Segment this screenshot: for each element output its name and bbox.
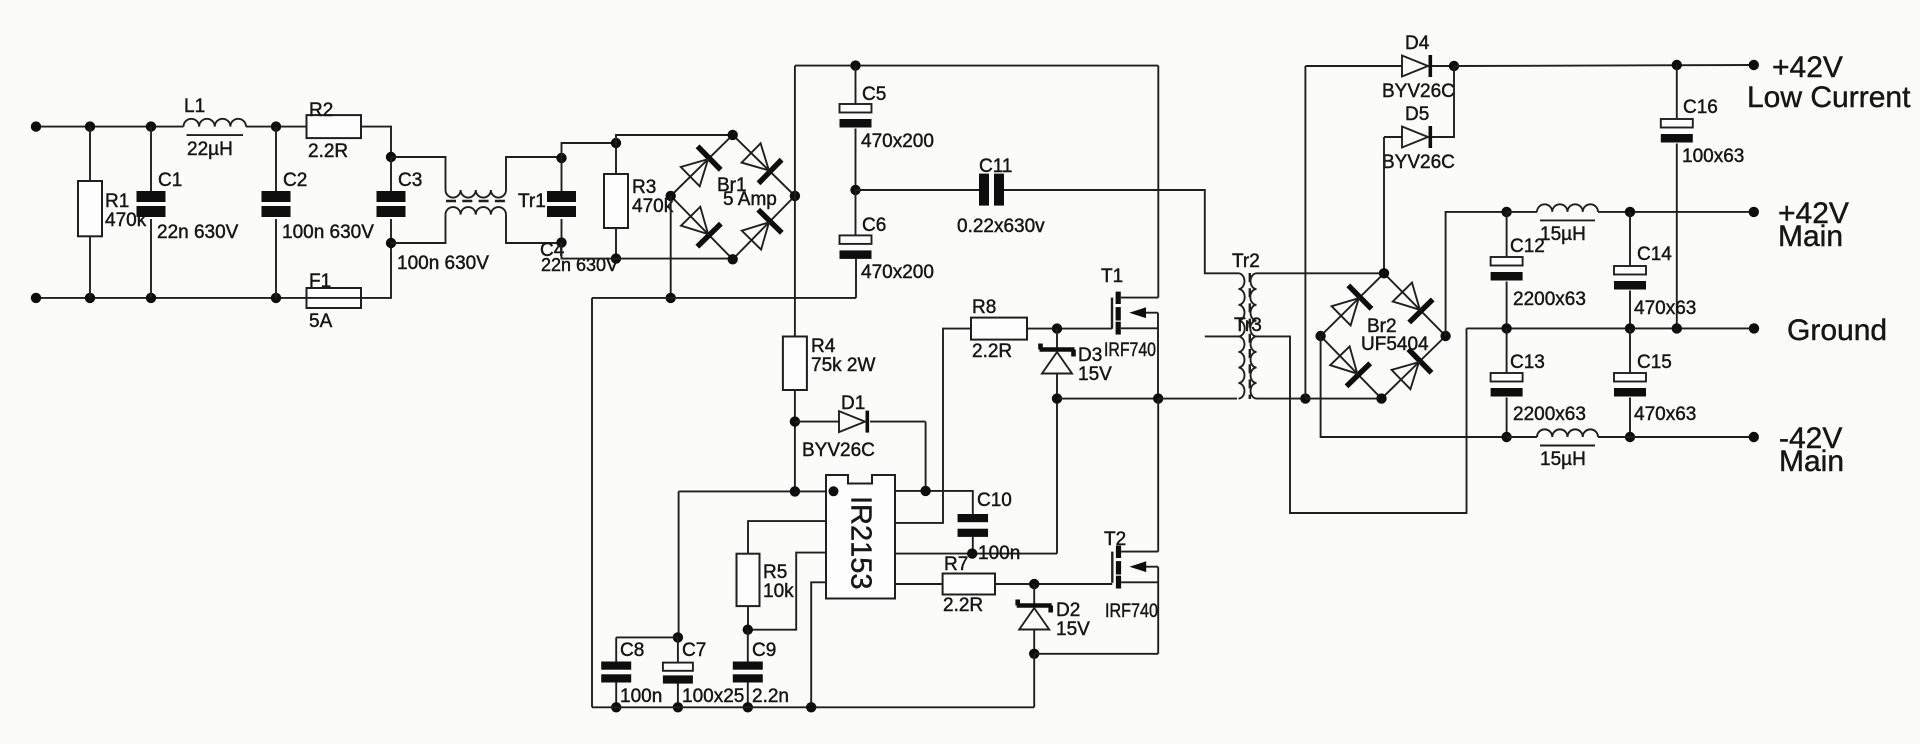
junction pin4 ground bbox=[806, 702, 816, 712]
wire C3 top to Tr1 top winding bbox=[391, 157, 446, 190]
capacitor C6 bbox=[840, 235, 872, 259]
wire minus rail down to control ground bbox=[591, 298, 593, 707]
wire C13 bottom lead bbox=[1506, 398, 1508, 438]
svg-text:F1: F1 bbox=[309, 271, 331, 292]
svg-text:100x25: 100x25 bbox=[682, 686, 744, 707]
wire C6 bottom stub bbox=[855, 258, 858, 260]
svg-text:100n: 100n bbox=[620, 686, 662, 707]
wire pin3 to R5 bottom C9 bbox=[748, 553, 826, 630]
node Br1 AC top bbox=[728, 130, 738, 140]
terminal +42V low current bbox=[1749, 60, 1759, 70]
svg-text:15µH: 15µH bbox=[1540, 224, 1586, 245]
svg-text:0.22x630v: 0.22x630v bbox=[957, 216, 1045, 237]
capacitor C7 bbox=[663, 663, 693, 684]
junction C16 bottom bbox=[1672, 323, 1682, 333]
capacitor C10 bbox=[958, 514, 989, 537]
capacitor C15 bbox=[1614, 373, 1646, 397]
terminal input bottom bbox=[31, 293, 41, 303]
junction D4 D5 cathodes bbox=[1449, 61, 1459, 71]
wire T1 drain lead bbox=[1121, 297, 1159, 299]
wire C2 top lead bbox=[275, 127, 277, 191]
junction C5 top bbox=[850, 60, 860, 70]
wire C7 bottom lead bbox=[677, 683, 679, 707]
capacitor C4 bbox=[547, 191, 576, 217]
wire secondary bottom to Br2 AC bbox=[1305, 398, 1381, 400]
wire pin6 Vs bbox=[895, 553, 1057, 555]
wire bottom input rail bbox=[36, 297, 307, 299]
wire R3 bottom lead bbox=[615, 228, 617, 259]
svg-text:D3: D3 bbox=[1078, 345, 1102, 366]
svg-text:C6: C6 bbox=[862, 215, 886, 236]
wire C10 bottom lead bbox=[972, 537, 974, 554]
junction C15 bottom bbox=[1625, 432, 1635, 442]
svg-text:2.2R: 2.2R bbox=[972, 341, 1012, 362]
wire D4 cathode lead bbox=[1432, 65, 1454, 67]
junction C14 C15 bbox=[1625, 323, 1635, 333]
IC U1 pin1 mark bbox=[829, 486, 839, 496]
junction C4 top bbox=[556, 153, 566, 163]
transformer Tr2 Tr3 core bbox=[1249, 273, 1251, 399]
svg-text:Tr1: Tr1 bbox=[518, 191, 546, 212]
svg-text:2200x63: 2200x63 bbox=[1513, 404, 1586, 425]
svg-text:2.2R: 2.2R bbox=[308, 141, 348, 162]
terminal input top bbox=[31, 121, 41, 131]
svg-text:C10: C10 bbox=[977, 490, 1012, 511]
junction R3 top bbox=[611, 138, 621, 148]
svg-text:75k 2W: 75k 2W bbox=[811, 355, 875, 376]
wire C9 bottom lead bbox=[747, 683, 749, 708]
capacitor C8 bbox=[601, 662, 631, 683]
wire C7 top lead bbox=[677, 637, 679, 662]
junction D1 anode bbox=[790, 416, 800, 426]
capacitor C12 bbox=[1491, 257, 1523, 281]
svg-text:UF5404: UF5404 bbox=[1361, 334, 1429, 355]
node Br2 AC top bbox=[1379, 268, 1389, 278]
wire Br1 minus down to minus rail bbox=[670, 196, 672, 298]
junction D2 bottom bbox=[1029, 649, 1039, 659]
zener diode D3 bbox=[1040, 344, 1075, 374]
node Br1 AC bottom bbox=[728, 254, 738, 264]
junction half-bridge midpoint bbox=[1153, 393, 1163, 403]
wire C14 top lead bbox=[1629, 212, 1631, 266]
svg-text:C9: C9 bbox=[752, 640, 776, 661]
wire C15 top lead bbox=[1629, 328, 1631, 373]
svg-text:10k: 10k bbox=[763, 581, 794, 602]
svg-text:Tr3: Tr3 bbox=[1234, 315, 1262, 336]
svg-text:Low Current: Low Current bbox=[1747, 81, 1911, 114]
junction C7 ground bbox=[673, 702, 683, 712]
wire top input rail left bbox=[36, 126, 184, 128]
wire C8 top lead bbox=[615, 637, 617, 661]
wire R1 top lead bbox=[89, 127, 91, 181]
inductor L3 15uH bbox=[1537, 429, 1598, 445]
wire R5 bottom lead bbox=[747, 606, 749, 630]
wire pin8 Vb to C10 bbox=[895, 491, 973, 514]
svg-text:BYV26C: BYV26C bbox=[1382, 81, 1455, 102]
wire Tr primary tap stub bbox=[1205, 335, 1239, 337]
svg-text:22µH: 22µH bbox=[187, 139, 233, 160]
svg-text:100n 630V: 100n 630V bbox=[397, 253, 489, 274]
wire D5 anode lead bbox=[1384, 136, 1402, 138]
junction C2 top bbox=[271, 121, 281, 131]
wire midpoint rail bbox=[1057, 398, 1158, 400]
svg-text:D1: D1 bbox=[841, 393, 865, 414]
wire midpoint to C11 bbox=[856, 189, 980, 191]
wire C4 bottom lead bbox=[561, 219, 563, 243]
svg-text:2200x63: 2200x63 bbox=[1513, 289, 1586, 310]
svg-text:2.2n: 2.2n bbox=[752, 686, 789, 707]
wire HV rail down to T1 drain bbox=[1157, 66, 1159, 298]
capacitor C3 bbox=[377, 191, 406, 217]
transformer Tr2 primary winding bbox=[1239, 273, 1245, 336]
junction R1 top bbox=[85, 121, 95, 131]
wire C5 to C6 junction bbox=[855, 129, 857, 191]
wire T1 source lead bbox=[1121, 327, 1158, 329]
node Br2 DC plus bbox=[1440, 331, 1450, 341]
wire R7 to T2 gate bbox=[995, 583, 1112, 585]
wire pin1 Vcc bbox=[679, 490, 826, 492]
wire C3 bottom to Tr1 bottom winding bbox=[391, 215, 446, 243]
transformer Tr3 primary winding bbox=[1239, 336, 1245, 398]
junction C1 top bbox=[146, 121, 156, 131]
junction D3 top bbox=[1052, 323, 1062, 333]
IC U1 IR2153 bbox=[826, 475, 895, 599]
resistor R8 bbox=[971, 318, 1027, 340]
resistor R2 bbox=[307, 115, 362, 138]
svg-text:C3: C3 bbox=[398, 170, 422, 191]
junction C2 bottom bbox=[271, 293, 281, 303]
inductor L1 bbox=[184, 119, 247, 135]
wire C16 down to ground rail bbox=[1676, 144, 1678, 329]
diode D5 bbox=[1402, 126, 1432, 148]
svg-text:Ground: Ground bbox=[1787, 314, 1887, 347]
svg-text:R3: R3 bbox=[632, 177, 656, 198]
wire R3 top to Br1 AC top bbox=[616, 135, 733, 143]
svg-text:470x63: 470x63 bbox=[1634, 404, 1696, 425]
wire -42V rail to L3 bbox=[1507, 436, 1537, 438]
capacitor C9 bbox=[733, 662, 763, 683]
wire C1 bottom lead bbox=[150, 219, 152, 298]
wire C1 top lead bbox=[150, 127, 152, 191]
wire Br2 minus down to -42V rail bbox=[1321, 336, 1507, 437]
junction C12 C13 bbox=[1501, 323, 1511, 333]
node Br1 DC minus bbox=[666, 191, 676, 201]
wire C8 bottom lead bbox=[615, 683, 617, 708]
transformer Tr1 bottom winding bbox=[446, 207, 507, 215]
svg-text:R4: R4 bbox=[811, 336, 836, 357]
svg-text:470x63: 470x63 bbox=[1634, 298, 1696, 319]
wire Br2 plus up to +42V rail bbox=[1446, 212, 1507, 336]
wire primary minus rail bbox=[592, 297, 856, 299]
wire C2 bottom lead bbox=[275, 219, 277, 298]
transistor T1 IRF740 bbox=[1112, 292, 1121, 335]
capacitor C1 bbox=[137, 191, 166, 217]
wire top rail L1 to R2 bbox=[246, 126, 307, 128]
svg-text:T2: T2 bbox=[1104, 529, 1126, 550]
wire T1 substrate arrow lead bbox=[1135, 312, 1158, 314]
wire Tr3 secondary bottom bbox=[1257, 398, 1306, 400]
junction D2 top bbox=[1029, 579, 1039, 589]
svg-text:15V: 15V bbox=[1056, 619, 1090, 640]
wire R2 to C3 top bbox=[361, 127, 391, 157]
wire C13 top lead bbox=[1506, 328, 1508, 373]
capacitor C2 bbox=[262, 191, 291, 217]
wire D1 cathode to Vb bbox=[870, 421, 926, 423]
junction C3 bottom bbox=[386, 238, 396, 248]
wire C11 to Tr2 primary top bbox=[1004, 190, 1239, 273]
wire C8 jog bbox=[616, 636, 678, 638]
wire D3 top lead bbox=[1056, 329, 1058, 349]
wire C14 bottom lead bbox=[1629, 291, 1631, 329]
wire Tr2 secondary top to Br2 bbox=[1257, 272, 1385, 274]
arrow T1 substrate bbox=[1129, 307, 1146, 318]
wire C12 bottom lead bbox=[1506, 282, 1508, 329]
wire C3 bottom lead bbox=[390, 219, 392, 243]
wire R1 bottom lead bbox=[89, 236, 91, 298]
wire +42V low current rail bbox=[1454, 65, 1754, 66]
svg-text:IR2153: IR2153 bbox=[845, 496, 877, 590]
svg-text:D5: D5 bbox=[1405, 104, 1429, 125]
wire D1 anode lead bbox=[795, 421, 839, 423]
svg-text:C16: C16 bbox=[1683, 97, 1718, 118]
wire ground rail bbox=[1467, 327, 1755, 329]
wire T2 drain lead bbox=[1121, 551, 1158, 553]
wire R3 bottom to Br1 AC bottom bbox=[616, 258, 733, 260]
svg-text:D2: D2 bbox=[1056, 600, 1080, 621]
svg-text:15µH: 15µH bbox=[1540, 449, 1586, 470]
capacitor C5 bbox=[840, 104, 872, 128]
capacitor C16 bbox=[1661, 119, 1693, 143]
capacitor C13 bbox=[1491, 373, 1523, 397]
node Br2 AC bottom bbox=[1376, 393, 1386, 403]
svg-text:22n 630V: 22n 630V bbox=[157, 222, 239, 243]
svg-text:+42V: +42V bbox=[1772, 51, 1843, 84]
wire minus rail up to C6 bottom bbox=[855, 259, 857, 298]
resistor R5 bbox=[737, 554, 760, 606]
junction C10 Vs bbox=[967, 548, 977, 558]
wire C16 top lead bbox=[1676, 65, 1678, 119]
svg-text:Main: Main bbox=[1779, 445, 1844, 478]
transformer Tr1 core bbox=[446, 200, 506, 203]
node Br1 DC plus bbox=[790, 191, 800, 201]
svg-text:100n: 100n bbox=[978, 543, 1020, 564]
junction D3 midpoint bbox=[1052, 393, 1062, 403]
svg-text:T1: T1 bbox=[1101, 266, 1123, 287]
zener diode D2 bbox=[1017, 600, 1052, 630]
wire R4 bottom to Vcc node bbox=[794, 390, 796, 491]
svg-text:Main: Main bbox=[1778, 220, 1843, 253]
wire T2 source down bbox=[1157, 567, 1159, 654]
terminal +42V main bbox=[1749, 207, 1759, 217]
svg-text:IRF740: IRF740 bbox=[1104, 340, 1156, 361]
wire T2 source to D2 bottom bbox=[1034, 653, 1158, 655]
svg-text:2.2R: 2.2R bbox=[943, 595, 983, 616]
wire C3 top lead bbox=[390, 157, 392, 191]
svg-text:5 Amp: 5 Amp bbox=[723, 189, 777, 210]
wire Vs up to midpoint bbox=[1056, 399, 1058, 554]
wire D2 top lead bbox=[1033, 584, 1035, 605]
svg-text:BYV26C: BYV26C bbox=[802, 440, 875, 461]
junction C12 top bbox=[1501, 207, 1511, 217]
wire T2 substrate arrow lead bbox=[1135, 566, 1158, 568]
transistor T2 IRF740 bbox=[1112, 546, 1121, 589]
svg-text:BYV26C: BYV26C bbox=[1382, 152, 1455, 173]
wire D2 bottom lead bbox=[1033, 630, 1035, 654]
svg-text:470x200: 470x200 bbox=[861, 131, 934, 152]
svg-text:C5: C5 bbox=[862, 84, 886, 105]
wire D2 bottom to ground rail bbox=[1033, 654, 1035, 708]
svg-text:5A: 5A bbox=[309, 311, 333, 332]
wire Br1 plus down to R4 bbox=[794, 196, 796, 337]
wire C4 top lead bbox=[561, 158, 563, 191]
transformer Tr1 top winding bbox=[446, 190, 507, 198]
junction C4 bottom bbox=[556, 237, 566, 247]
svg-text:C1: C1 bbox=[158, 170, 182, 191]
svg-text:100n 630V: 100n 630V bbox=[282, 222, 374, 243]
wire C4 bottom to R3 bottom bbox=[562, 243, 617, 259]
wire D5 cathode up to D4 bbox=[1432, 66, 1454, 137]
svg-text:C8: C8 bbox=[620, 640, 644, 661]
wire C12 top lead bbox=[1506, 212, 1508, 257]
wire -42V main rail right bbox=[1598, 436, 1754, 438]
wire D5 anode down to Br2 AC top bbox=[1383, 137, 1385, 273]
junction C1 bottom bbox=[146, 293, 156, 303]
svg-text:R5: R5 bbox=[763, 562, 787, 583]
node Br2 DC minus bbox=[1315, 331, 1325, 341]
wire Tr secondary tap to ground path bbox=[1257, 328, 1467, 513]
junction D1 cathode pin8 bbox=[920, 486, 930, 496]
fuse F1 bbox=[307, 288, 362, 308]
wire control ground rail bbox=[592, 706, 1034, 708]
resistor R4 bbox=[783, 337, 807, 391]
svg-text:470x200: 470x200 bbox=[861, 262, 934, 283]
wire C4 top to R3 top bbox=[562, 143, 617, 158]
wire HV plus rail bbox=[795, 65, 1158, 67]
wire Br1 plus up to HV rail bbox=[794, 66, 796, 196]
junction R1 bottom bbox=[85, 293, 95, 303]
junction C13 bottom bbox=[1501, 432, 1511, 442]
svg-text:C15: C15 bbox=[1637, 352, 1672, 373]
junction R3 bottom bbox=[611, 253, 621, 263]
junction C7 C8 bbox=[673, 632, 683, 642]
capacitor C11 bbox=[979, 174, 1004, 206]
transformer Tr2 secondary winding bbox=[1250, 273, 1256, 336]
wire C5 top lead bbox=[855, 66, 857, 104]
wire T2 source lead bbox=[1121, 581, 1158, 583]
arrow T2 substrate bbox=[1129, 561, 1146, 572]
wire D4 anode riser bbox=[1304, 66, 1306, 399]
svg-text:C14: C14 bbox=[1637, 244, 1672, 265]
wire Vcc down to C7 bbox=[678, 491, 680, 637]
svg-text:R7: R7 bbox=[944, 554, 968, 575]
wire T2 drain up to midpoint bbox=[1157, 399, 1159, 552]
wire Tr1 top winding to C4 top bbox=[506, 157, 562, 190]
junction C14 top bbox=[1625, 207, 1635, 217]
wire rail to L2 bbox=[1507, 211, 1537, 213]
wire D1 cathode down to pin8 wire bbox=[925, 422, 927, 491]
diode D1 bbox=[839, 411, 869, 433]
diode D4 bbox=[1402, 55, 1432, 77]
bridge rectifier Br1 bbox=[671, 135, 795, 259]
wire D4 anode lead bbox=[1305, 65, 1402, 67]
wire R8 to T1 gate bbox=[1027, 328, 1112, 330]
wire Tr1 bottom winding to C4 bottom bbox=[506, 215, 562, 243]
svg-text:100x63: 100x63 bbox=[1682, 146, 1744, 167]
junction D4 anode bottom rail bbox=[1300, 393, 1310, 403]
junction C16 top bbox=[1672, 60, 1682, 70]
svg-text:D4: D4 bbox=[1405, 33, 1430, 54]
bridge rectifier Br2 bbox=[1321, 273, 1446, 398]
wire F1 to C3 bottom bbox=[361, 243, 391, 298]
svg-text:IRF740: IRF740 bbox=[1105, 601, 1158, 622]
terminal -42V main bbox=[1749, 432, 1759, 442]
wire C6 top lead bbox=[855, 190, 857, 235]
svg-text:C7: C7 bbox=[682, 640, 706, 661]
inductor L2 15uH bbox=[1537, 204, 1598, 220]
svg-text:C13: C13 bbox=[1510, 352, 1545, 373]
wire pin4 to ground rail bbox=[811, 582, 826, 707]
junction C5 C6 midpoint bbox=[850, 185, 860, 195]
wire T1 source down to midpoint bbox=[1157, 313, 1159, 399]
wire +42V main rail right bbox=[1598, 211, 1754, 213]
svg-text:Tr2: Tr2 bbox=[1232, 251, 1260, 272]
transformer Tr3 secondary winding bbox=[1251, 336, 1257, 398]
wire midpoint to Tr3 primary bottom bbox=[1158, 398, 1237, 400]
svg-text:R1: R1 bbox=[105, 191, 129, 212]
svg-text:R2: R2 bbox=[309, 100, 333, 121]
svg-text:C12: C12 bbox=[1510, 236, 1545, 257]
wire D3 bottom lead bbox=[1056, 374, 1058, 399]
wire C9 top lead bbox=[747, 630, 749, 662]
resistor R3 bbox=[604, 174, 628, 228]
svg-text:L1: L1 bbox=[184, 96, 205, 117]
wire pin2 to R5 bbox=[748, 521, 826, 554]
junction R4 D1 on Vcc wire bbox=[790, 486, 800, 496]
terminal ground bbox=[1749, 323, 1759, 333]
capacitor C14 bbox=[1614, 266, 1646, 290]
wire pin7 HO to R8 bbox=[895, 329, 971, 523]
junction C8 ground bbox=[611, 702, 621, 712]
svg-text:C11: C11 bbox=[979, 156, 1012, 177]
wire R3 top lead bbox=[615, 143, 617, 174]
junction C9 ground bbox=[743, 702, 753, 712]
svg-text:C2: C2 bbox=[283, 170, 307, 191]
junction C3 top bbox=[386, 152, 396, 162]
svg-text:15V: 15V bbox=[1078, 364, 1112, 385]
svg-text:R8: R8 bbox=[972, 297, 996, 318]
junction R5 C9 bbox=[743, 625, 753, 635]
resistor R1 bbox=[78, 181, 102, 236]
junction Br1 minus on rail bbox=[666, 293, 676, 303]
wire C15 bottom lead bbox=[1629, 398, 1631, 438]
resistor R7 bbox=[943, 574, 995, 595]
wire pin5 LO to R7 bbox=[895, 583, 943, 585]
